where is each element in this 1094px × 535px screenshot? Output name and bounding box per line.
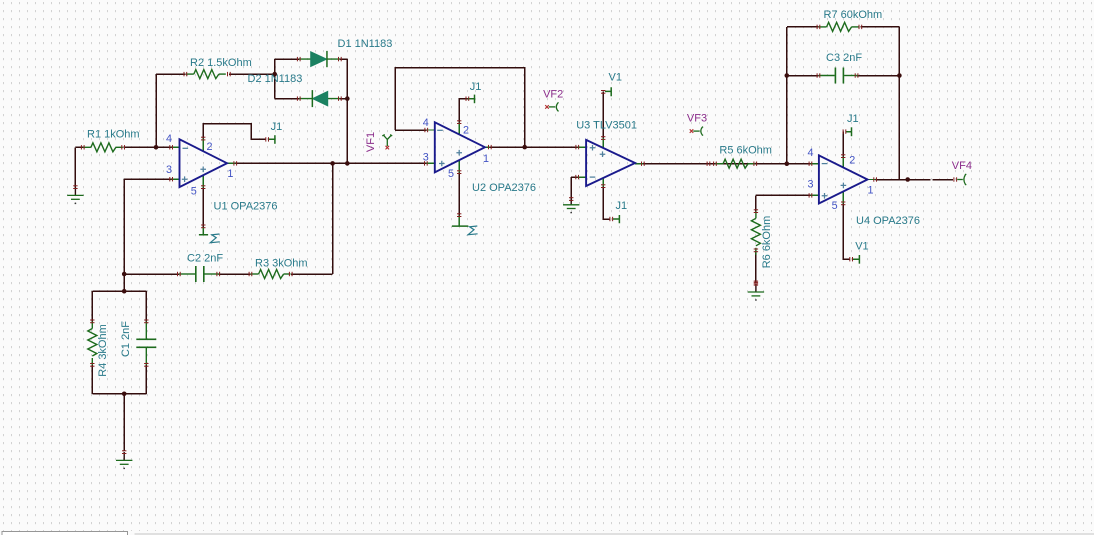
svg-text:4: 4 <box>808 147 814 159</box>
svg-text:VF4: VF4 <box>952 160 972 172</box>
svg-text:V1: V1 <box>609 72 622 84</box>
svg-text:C2 2nF: C2 2nF <box>187 253 223 265</box>
svg-text:VF3: VF3 <box>687 112 707 124</box>
svg-text:VF2: VF2 <box>543 89 563 101</box>
svg-text:U2 OPA2376: U2 OPA2376 <box>472 182 536 194</box>
svg-text:1: 1 <box>868 185 874 197</box>
svg-text:VF1: VF1 <box>365 132 377 152</box>
svg-text:J1: J1 <box>470 81 482 93</box>
svg-text:R3 3kOhm: R3 3kOhm <box>255 257 308 269</box>
svg-text:4: 4 <box>423 117 429 129</box>
svg-text:2: 2 <box>849 155 855 167</box>
svg-text:2: 2 <box>463 125 469 137</box>
svg-text:D1 1N1183: D1 1N1183 <box>338 38 393 50</box>
svg-text:3: 3 <box>166 164 172 176</box>
svg-text:3: 3 <box>808 179 814 191</box>
svg-text:R4 3kOhm: R4 3kOhm <box>97 324 109 377</box>
svg-text:C1 2nF: C1 2nF <box>120 321 132 357</box>
svg-text:D2 1N1183: D2 1N1183 <box>248 73 303 85</box>
svg-text:C3 2nF: C3 2nF <box>826 52 862 64</box>
svg-text:U4 OPA2376: U4 OPA2376 <box>856 215 920 227</box>
svg-text:3: 3 <box>423 152 429 164</box>
svg-text:R7 60kOhm: R7 60kOhm <box>824 9 883 21</box>
svg-text:R5 6kOhm: R5 6kOhm <box>719 144 772 156</box>
svg-text:R2 1.5kOhm: R2 1.5kOhm <box>190 57 252 69</box>
svg-text:5: 5 <box>832 200 838 212</box>
svg-text:J1: J1 <box>616 200 628 212</box>
svg-text:U1 OPA2376: U1 OPA2376 <box>214 201 278 213</box>
svg-text:1: 1 <box>227 168 233 180</box>
svg-text:5: 5 <box>448 168 454 180</box>
svg-text:5: 5 <box>191 186 197 198</box>
svg-text:4: 4 <box>166 133 172 145</box>
svg-text:J1: J1 <box>271 121 283 133</box>
svg-text:2: 2 <box>207 141 213 153</box>
svg-text:U3 TLV3501: U3 TLV3501 <box>576 120 637 132</box>
svg-text:1: 1 <box>483 153 489 165</box>
svg-text:R1 1kOhm: R1 1kOhm <box>87 128 140 140</box>
svg-text:J1: J1 <box>847 113 859 125</box>
svg-text:R6 6kOhm: R6 6kOhm <box>761 216 773 269</box>
svg-text:V1: V1 <box>855 241 868 253</box>
